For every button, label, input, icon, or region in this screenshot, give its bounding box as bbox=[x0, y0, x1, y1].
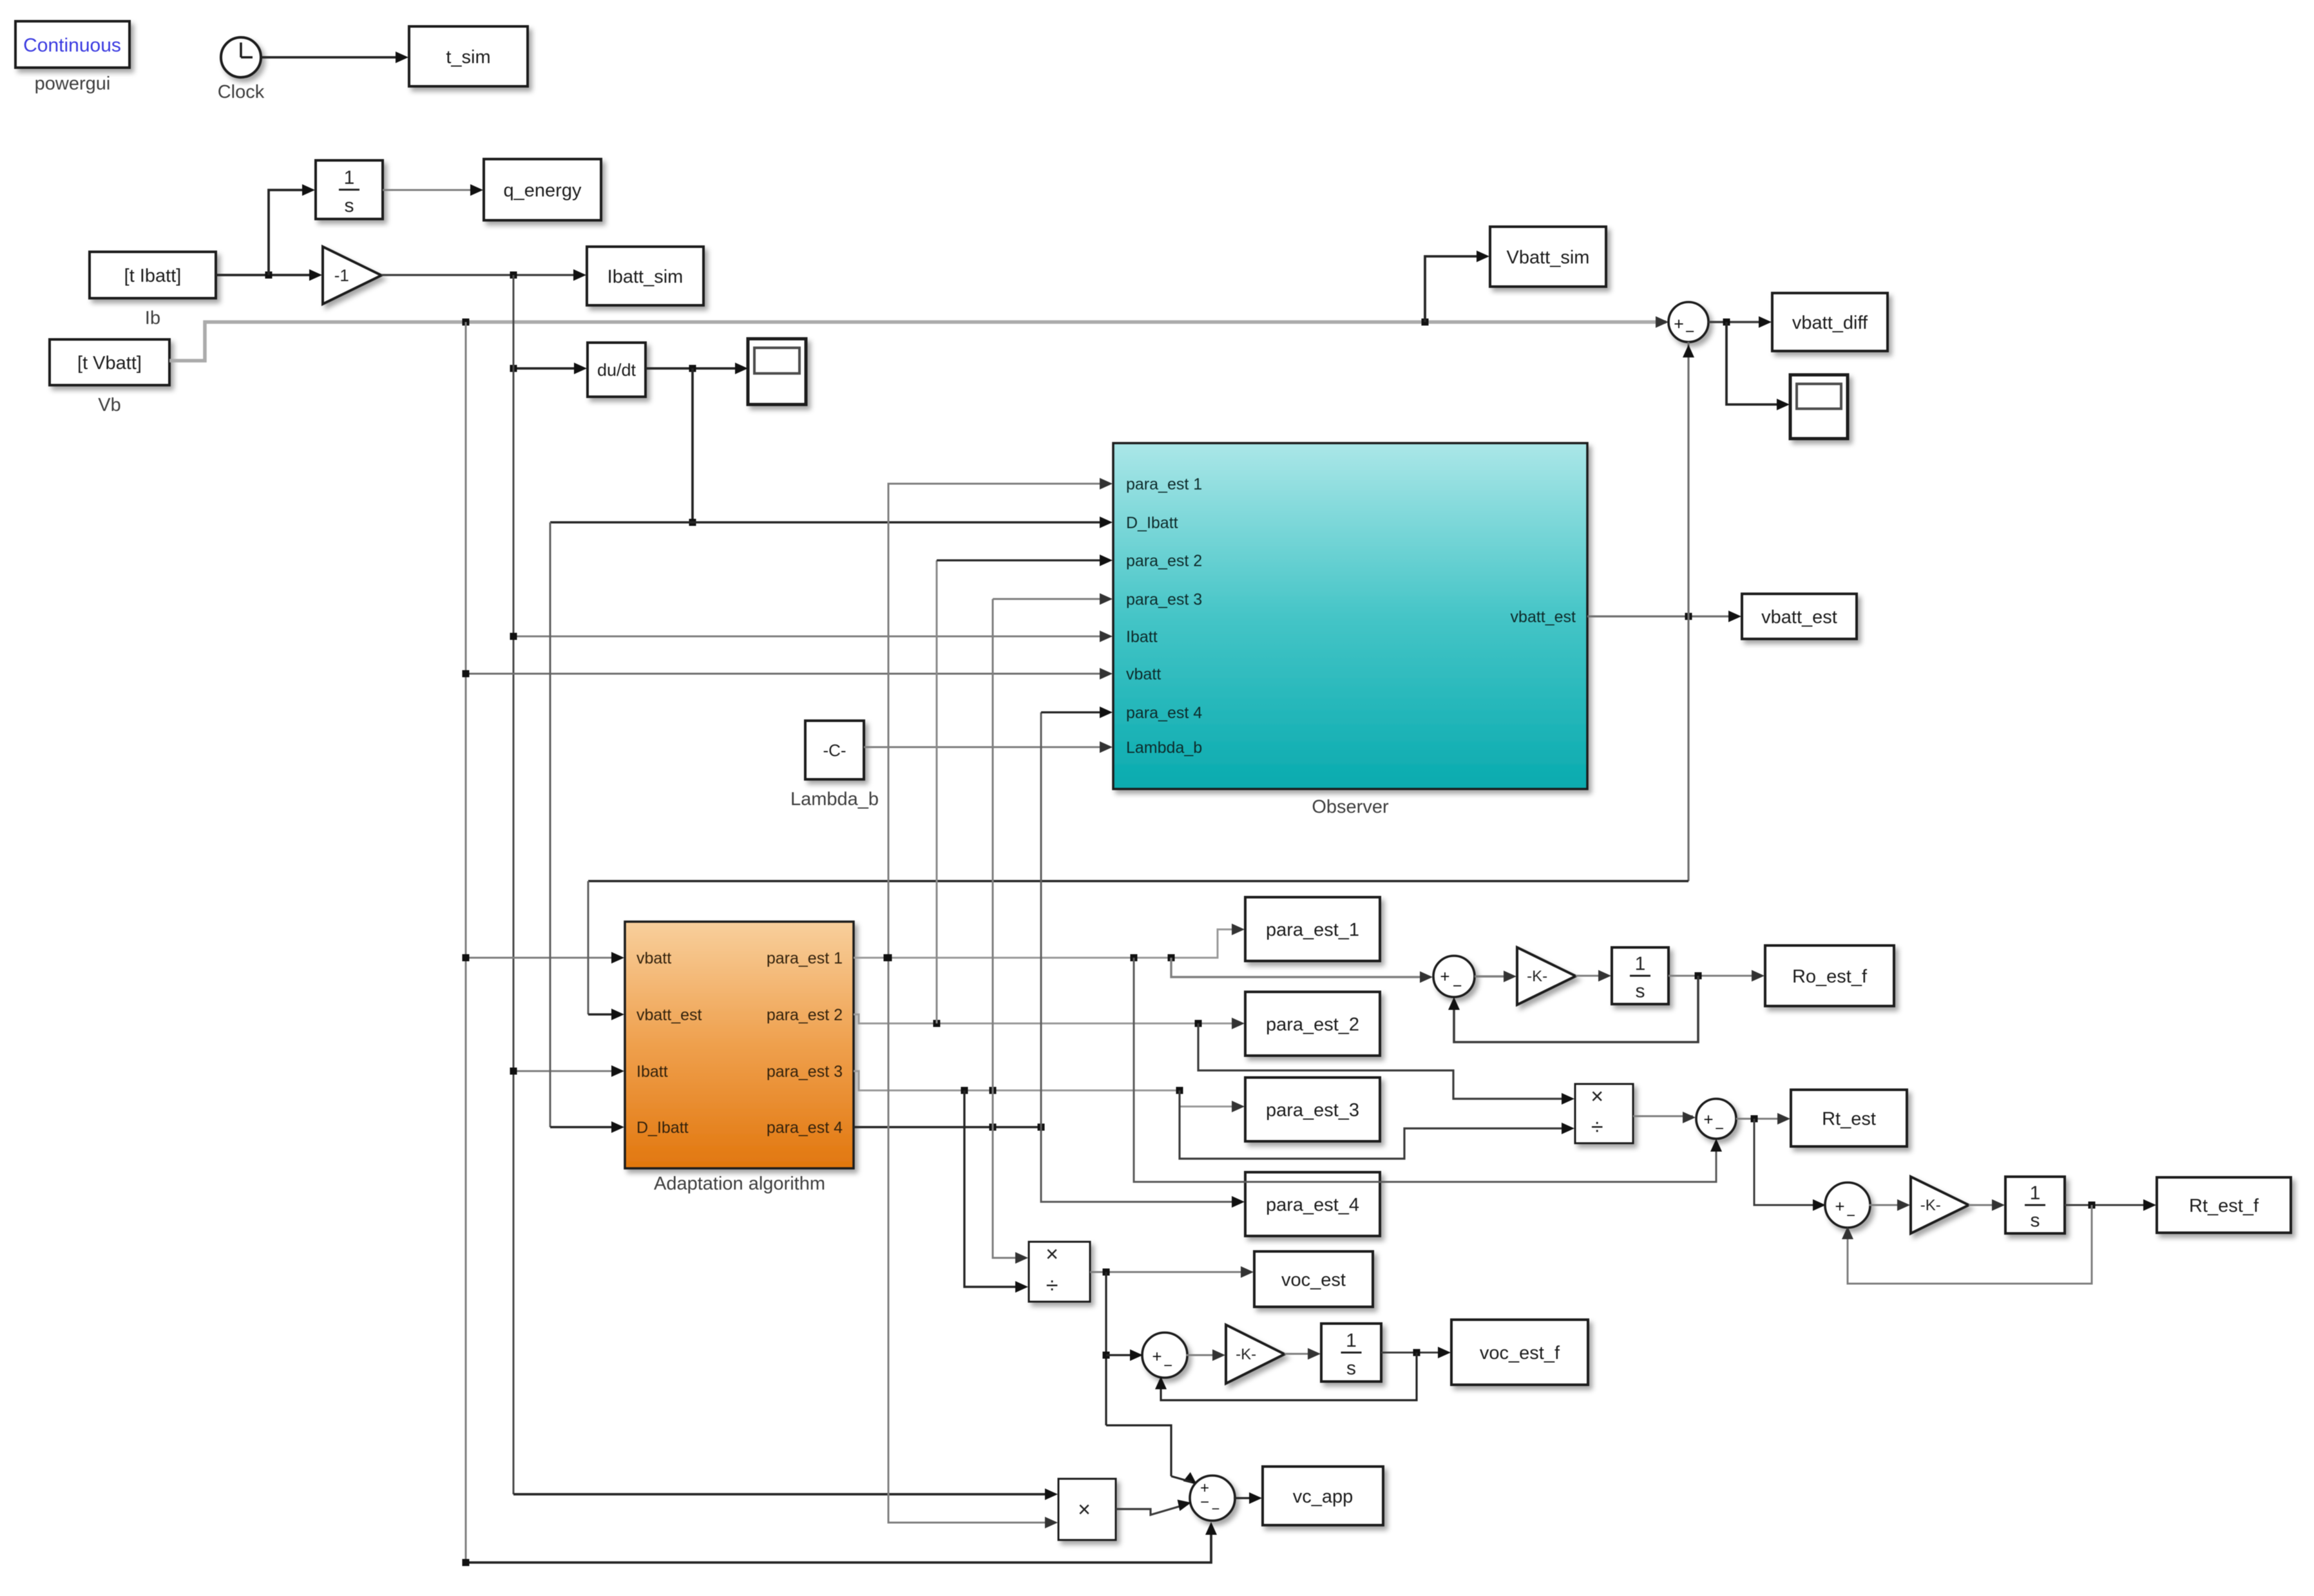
wire Rt filter feedback bbox=[1842, 1205, 2092, 1284]
powergui block bbox=[15, 21, 129, 94]
integrator Ro 1/s bbox=[1612, 947, 1669, 1004]
wire para_est2 output bbox=[854, 1014, 1245, 1029]
wire Ibatt to vc product bbox=[513, 1488, 1058, 1500]
wire gain to integrator voc bbox=[1285, 1348, 1321, 1360]
sum1 Ro filter bbox=[1433, 956, 1475, 997]
svg-text:q_energy: q_energy bbox=[504, 180, 582, 201]
svg-text:vbatt: vbatt bbox=[1126, 665, 1161, 683]
svg-text:t_sim: t_sim bbox=[446, 47, 490, 68]
wire para_est1 to sum1 bbox=[1171, 958, 1433, 983]
svg-text:D_Ibatt: D_Ibatt bbox=[636, 1119, 689, 1137]
wire para_est3 to voc divide bbox=[964, 1090, 1028, 1293]
wire vbatt main horizontal bbox=[169, 316, 1669, 361]
svg-text:Continuous: Continuous bbox=[23, 35, 121, 56]
wire para_est1 trunk to vc product bbox=[885, 478, 1113, 1528]
product voc multiply divide bbox=[1029, 1242, 1090, 1302]
Ibatt_sim outport block bbox=[587, 247, 703, 305]
svg-text:voc_est_f: voc_est_f bbox=[1480, 1343, 1560, 1363]
wire sum4 to gain voc bbox=[1186, 1349, 1225, 1361]
wire du/dt drop vertical bbox=[689, 368, 696, 526]
wire gain -1 to Ibatt_sim bbox=[381, 269, 586, 281]
wire para_est4 drop to block bbox=[1041, 1127, 1245, 1208]
wire D_Ibatt vertical bbox=[550, 522, 624, 1133]
svg-text:[t Vbatt]: [t Vbatt] bbox=[77, 353, 142, 374]
svg-text:÷: ÷ bbox=[1046, 1273, 1058, 1298]
wire para_est4 riser bbox=[1041, 707, 1113, 1127]
gain -K- Ro bbox=[1517, 947, 1576, 1005]
svg-text:−: − bbox=[1715, 1120, 1724, 1137]
voc_est outport block bbox=[1254, 1251, 1373, 1307]
para_est_3 display block bbox=[1245, 1078, 1380, 1141]
wire gain to integrator Rt bbox=[1969, 1199, 2005, 1211]
from block [t Vbatt] bbox=[50, 339, 169, 415]
gain -K- voc bbox=[1226, 1325, 1285, 1383]
wire voc to vc sum bbox=[1106, 1425, 1201, 1489]
wire Ibatt vertical trunk bbox=[513, 275, 515, 1494]
vc_app outport block bbox=[1263, 1467, 1383, 1525]
wire sum2 to Rt_est bbox=[1736, 1113, 1790, 1125]
integrator block 1/s bbox=[316, 160, 383, 219]
wire du/dt to scope bbox=[645, 363, 748, 374]
svg-text:Observer: Observer bbox=[1312, 797, 1389, 817]
svg-text:Rt_est: Rt_est bbox=[1822, 1108, 1876, 1129]
vbatt_est outport block bbox=[1742, 594, 1857, 639]
wire para_est2 to Rt product bbox=[1198, 1023, 1574, 1105]
wire D_Ibatt to observer bbox=[550, 517, 1113, 528]
scope block 1 bbox=[748, 339, 806, 404]
Rt_est_f outport block bbox=[2157, 1177, 2291, 1233]
wire gain to integrator Ro bbox=[1576, 970, 1611, 982]
svg-text:Lambda_b: Lambda_b bbox=[1126, 739, 1202, 757]
svg-text:para_est_2: para_est_2 bbox=[1266, 1014, 1359, 1035]
svg-text:[t Ibatt]: [t Ibatt] bbox=[124, 265, 182, 286]
para_est_2 display block bbox=[1245, 992, 1380, 1056]
wire voc vc sum elbow bbox=[1171, 1476, 1192, 1482]
wire diff to scope2 bbox=[1726, 322, 1790, 410]
svg-text:para_est_3: para_est_3 bbox=[1266, 1100, 1359, 1121]
svg-text:Ro_est_f: Ro_est_f bbox=[1792, 966, 1868, 987]
svg-text:-C-: -C- bbox=[823, 741, 846, 760]
svg-text:para_est 2: para_est 2 bbox=[767, 1006, 843, 1024]
svg-text:vc_app: vc_app bbox=[1293, 1487, 1353, 1507]
adaptation algorithm block bbox=[625, 922, 854, 1194]
svg-text:para_est 4: para_est 4 bbox=[1126, 704, 1202, 722]
svg-text:1: 1 bbox=[2030, 1183, 2041, 1204]
para_est_4 display block bbox=[1245, 1172, 1380, 1236]
svg-text:s: s bbox=[1346, 1358, 1356, 1379]
svg-text:Ibatt: Ibatt bbox=[1126, 628, 1158, 646]
wire sum5 to vc_app bbox=[1234, 1492, 1262, 1504]
wire Ibatt to observer bbox=[510, 631, 1113, 642]
wire voc vertical trunk bbox=[1103, 1272, 1110, 1425]
svg-text:-K-: -K- bbox=[1527, 968, 1547, 985]
svg-text:Ibatt: Ibatt bbox=[636, 1063, 668, 1081]
svg-text:vbatt_est: vbatt_est bbox=[636, 1006, 702, 1024]
svg-text:−: − bbox=[1846, 1207, 1855, 1224]
wire Rt product to sum2 bbox=[1633, 1112, 1696, 1123]
svg-text:Rt_est_f: Rt_est_f bbox=[2189, 1195, 2259, 1216]
sum vbatt_diff bbox=[1669, 302, 1708, 342]
svg-text:vbatt_est: vbatt_est bbox=[1761, 607, 1837, 627]
product vc multiply bbox=[1058, 1479, 1116, 1540]
integrator Rt 1/s bbox=[2005, 1177, 2065, 1233]
derivative block du/dt bbox=[588, 343, 645, 397]
svg-text:-K-: -K- bbox=[1920, 1197, 1941, 1214]
svg-text:du/dt: du/dt bbox=[597, 361, 636, 380]
svg-text:para_est 1: para_est 1 bbox=[1126, 475, 1202, 493]
wire [t Ibatt] to gain -1 bbox=[216, 269, 322, 281]
svg-text:×: × bbox=[1046, 1242, 1058, 1267]
gain -K- Rt bbox=[1911, 1177, 1969, 1233]
svg-text:Vb: Vb bbox=[98, 395, 120, 415]
wire vc product to sum5 bbox=[1116, 1497, 1192, 1515]
svg-text:vbatt_diff: vbatt_diff bbox=[1792, 312, 1868, 333]
wire para_est1 output bbox=[854, 924, 1245, 962]
svg-text:−: − bbox=[1200, 1494, 1209, 1511]
wire clock to t_sim bbox=[262, 52, 408, 63]
svg-text:s: s bbox=[345, 195, 354, 216]
wire vbatt to observer bbox=[463, 668, 1113, 679]
voc_est_f outport block bbox=[1451, 1320, 1588, 1385]
svg-text:Ibatt_sim: Ibatt_sim bbox=[607, 267, 684, 287]
svg-text:s: s bbox=[1636, 980, 1645, 1002]
wire para_est4 output bbox=[854, 1124, 1045, 1131]
clock source bbox=[218, 37, 265, 102]
gain -1 bbox=[323, 247, 381, 304]
svg-text:para_est 4: para_est 4 bbox=[767, 1119, 843, 1137]
t_sim outport block bbox=[409, 26, 528, 86]
svg-text:vbatt_est: vbatt_est bbox=[1511, 608, 1576, 626]
svg-text:voc_est: voc_est bbox=[1281, 1269, 1346, 1290]
sum3 Rt filter bbox=[1825, 1183, 1870, 1228]
svg-text:−: − bbox=[1685, 323, 1695, 341]
wire vbatt to vc sum bbox=[463, 1522, 1218, 1566]
wire Ro filter feedback bbox=[1448, 976, 1698, 1042]
wire para_est3 to observer bbox=[993, 593, 1113, 605]
svg-text:vbatt: vbatt bbox=[636, 949, 671, 967]
svg-text:Vbatt_sim: Vbatt_sim bbox=[1507, 247, 1590, 268]
svg-text:Adaptation algorithm: Adaptation algorithm bbox=[654, 1173, 825, 1194]
svg-text:÷: ÷ bbox=[1591, 1115, 1603, 1139]
vbatt_diff outport block bbox=[1772, 293, 1888, 351]
svg-text:para_est 3: para_est 3 bbox=[767, 1063, 843, 1081]
wire para_est3 to Rt divide bbox=[1180, 1090, 1574, 1159]
Vbatt_sim outport block bbox=[1490, 227, 1606, 287]
svg-text:−: − bbox=[1453, 977, 1462, 995]
sum5 vc bbox=[1190, 1476, 1235, 1521]
svg-text:para_est 2: para_est 2 bbox=[1126, 552, 1202, 570]
svg-text:1: 1 bbox=[1635, 953, 1646, 974]
wire sum3 to gain Rt bbox=[1869, 1199, 1910, 1211]
svg-text:powergui: powergui bbox=[35, 73, 111, 94]
svg-text:+: + bbox=[1152, 1347, 1162, 1366]
svg-text:para_est_4: para_est_4 bbox=[1266, 1195, 1359, 1215]
svg-text:Lambda_b: Lambda_b bbox=[790, 789, 879, 810]
wire integrator to Rt_est_f bbox=[2065, 1199, 2156, 1211]
svg-text:1: 1 bbox=[1346, 1330, 1357, 1351]
svg-text:Clock: Clock bbox=[218, 82, 265, 102]
wire voc product to voc_est bbox=[1090, 1266, 1254, 1278]
svg-text:para_est 1: para_est 1 bbox=[767, 949, 843, 967]
product Rt multiply divide bbox=[1575, 1084, 1633, 1143]
wire vbatt vertical trunk bbox=[465, 322, 467, 1563]
wire vbatt_est feedback vertical bbox=[1683, 342, 1694, 881]
svg-text:+: + bbox=[1835, 1197, 1844, 1216]
from block [t Ibatt] bbox=[90, 252, 216, 328]
wire para_est2 riser bbox=[937, 555, 1113, 1023]
integrator voc 1/s bbox=[1321, 1324, 1381, 1382]
wire para_est3 riser bbox=[993, 599, 1028, 1264]
svg-text:−: − bbox=[1212, 1501, 1220, 1517]
wire voc to sum4 bbox=[1106, 1349, 1143, 1361]
svg-text:×: × bbox=[1591, 1084, 1603, 1108]
wire integrator to Ro_est_f bbox=[1669, 970, 1764, 982]
Rt_est outport block bbox=[1791, 1090, 1907, 1146]
svg-text:−: − bbox=[1163, 1357, 1172, 1374]
scope block 2 bbox=[1790, 375, 1848, 439]
wire integrator to voc_est_f bbox=[1381, 1347, 1451, 1358]
svg-text:D_Ibatt: D_Ibatt bbox=[1126, 514, 1178, 532]
wire Lambda_b to observer bbox=[864, 741, 1113, 753]
wire vbatt to adaptation bbox=[463, 952, 625, 964]
Ro_est_f outport block bbox=[1765, 945, 1894, 1006]
constant block -C- bbox=[790, 721, 879, 810]
wire voc filter feedback bbox=[1155, 1353, 1417, 1400]
svg-text:-K-: -K- bbox=[1236, 1346, 1256, 1363]
observer subsystem block bbox=[1113, 443, 1587, 817]
wire para_est3 output bbox=[854, 1071, 1245, 1112]
wire Ibatt to integrator bbox=[269, 184, 315, 275]
svg-text:+: + bbox=[1440, 967, 1449, 986]
para_est_1 display block bbox=[1245, 897, 1380, 961]
svg-text:Ib: Ib bbox=[145, 308, 160, 328]
svg-text:-1: -1 bbox=[334, 265, 349, 285]
sum4 voc filter bbox=[1142, 1333, 1187, 1378]
svg-text:para_est_1: para_est_1 bbox=[1266, 920, 1359, 940]
svg-text:×: × bbox=[1078, 1497, 1091, 1522]
wire vbatt_est feedback to adaptation bbox=[588, 881, 1688, 1020]
sum2 Rt bbox=[1696, 1099, 1736, 1139]
wire sum1 to gain bbox=[1475, 971, 1516, 982]
svg-text:para_est 3: para_est 3 bbox=[1126, 591, 1202, 609]
svg-text:+: + bbox=[1703, 1110, 1713, 1129]
wire observer to vbatt_est bbox=[1587, 611, 1741, 622]
wire integrator to q_energy bbox=[383, 184, 483, 196]
wire Ibatt to du/dt bbox=[510, 363, 588, 374]
svg-text:+: + bbox=[1674, 314, 1684, 334]
q_energy outport block bbox=[484, 159, 601, 220]
wire to Vbatt_sim bbox=[1425, 251, 1489, 322]
wire Ibatt to adaptation bbox=[510, 1065, 625, 1077]
wire sum to vbatt_diff bbox=[1708, 316, 1772, 328]
svg-text:1: 1 bbox=[344, 167, 355, 188]
wire para_est1 to sum2 minus bbox=[1134, 958, 1722, 1182]
wire Rt_est to sum3 bbox=[1754, 1119, 1826, 1211]
svg-text:s: s bbox=[2031, 1210, 2040, 1231]
